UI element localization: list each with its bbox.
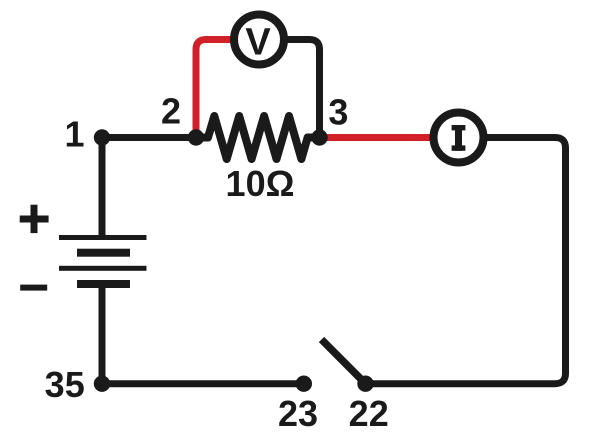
svg-text:10Ω: 10Ω	[226, 163, 295, 204]
svg-text:22: 22	[349, 393, 389, 434]
svg-text:2: 2	[161, 91, 181, 132]
svg-text:3: 3	[328, 92, 348, 133]
svg-text:1: 1	[64, 114, 84, 155]
svg-text:V: V	[245, 22, 271, 64]
svg-text:23: 23	[278, 393, 318, 434]
svg-text:35: 35	[45, 364, 85, 405]
